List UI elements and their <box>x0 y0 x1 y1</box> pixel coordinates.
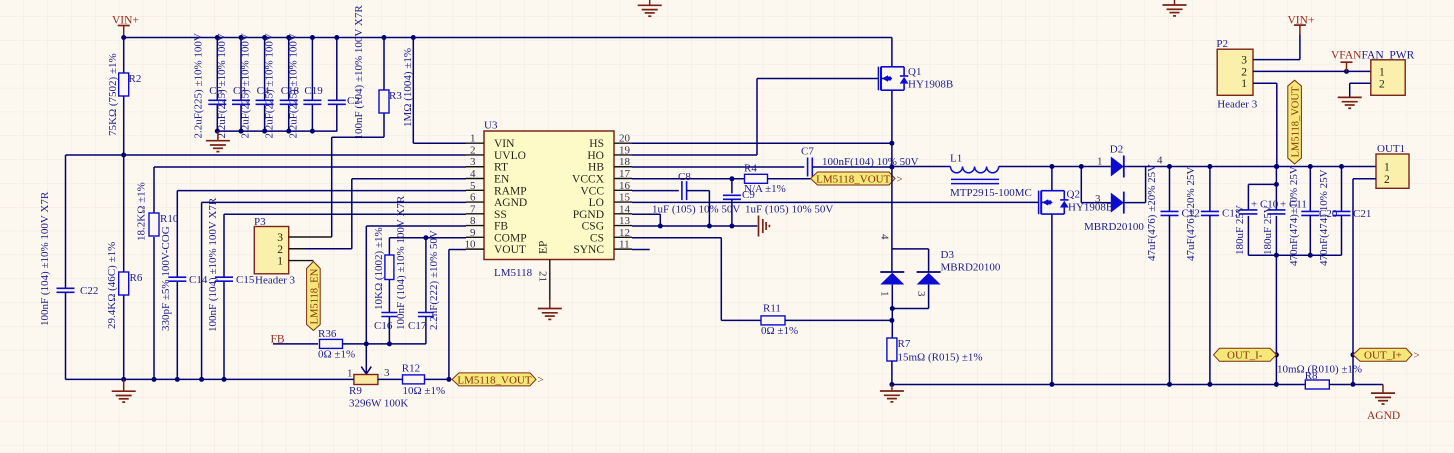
svg-text:2.2uF(225) ±10% 100V: 2.2uF(225) ±10% 100V <box>216 33 228 138</box>
potentiometer R9 wiper arrow <box>361 344 371 374</box>
potentiometer R9 <box>347 367 408 410</box>
svg-text:R10: R10 <box>160 213 179 225</box>
svg-text:5: 5 <box>470 180 476 192</box>
wire capacitor-bank ground rail <box>217 130 337 132</box>
pin 18 HB <box>588 156 632 174</box>
svg-text:3: 3 <box>1095 193 1101 205</box>
wire VIN to U3 pin1 <box>413 38 466 144</box>
svg-text:R9: R9 <box>349 385 362 397</box>
svg-text:R36: R36 <box>318 328 337 340</box>
net flag OUT_I- <box>1214 348 1277 361</box>
wire D3 to R7 <box>889 309 894 339</box>
svg-text:1uF (105) 10% 50V: 1uF (105) 10% 50V <box>745 204 833 216</box>
capacitor C13 <box>1185 167 1241 385</box>
svg-text:470nF(474)±10% 25V: 470nF(474)±10% 25V <box>1288 166 1300 266</box>
svg-text:SYNC: SYNC <box>573 244 604 256</box>
ground (power) <box>880 382 904 402</box>
svg-text:R6: R6 <box>130 272 143 284</box>
svg-text:COMP: COMP <box>494 232 527 244</box>
svg-text:470nF(474) 10% 25V: 470nF(474) 10% 25V <box>1318 169 1330 266</box>
header P3 <box>254 216 296 287</box>
inductor L1 <box>950 153 1032 200</box>
svg-text:PGND: PGND <box>573 209 604 221</box>
capacitor C18 <box>264 33 300 138</box>
connector FAN_PWR <box>1371 60 1405 96</box>
svg-text:2: 2 <box>277 244 283 256</box>
svg-text:LM5118_VOUT: LM5118_VOUT <box>457 374 531 386</box>
connector OUT1 <box>1376 143 1409 188</box>
pin 17 VCCX <box>572 168 632 186</box>
svg-text:100nF (104) ±10% 100V X7R: 100nF (104) ±10% 100V X7R <box>353 5 365 140</box>
wire VCC net / capacitor C8 <box>632 171 740 226</box>
svg-text:3: 3 <box>1241 55 1247 67</box>
resistor R36 <box>318 328 426 361</box>
wire OUT1 pin2 down <box>1353 179 1376 384</box>
power port VFAN <box>1331 50 1362 72</box>
wire power ground rail <box>892 382 1305 387</box>
svg-text:3: 3 <box>277 232 283 244</box>
svg-text:14: 14 <box>619 203 631 215</box>
wire P2 pin1 down <box>1253 83 1279 169</box>
pin 1 VIN <box>466 133 515 151</box>
svg-text:LO: LO <box>589 197 604 209</box>
svg-text:MBRD20100: MBRD20100 <box>1084 221 1144 233</box>
svg-text:CSG: CSG <box>582 221 604 233</box>
svg-text:1: 1 <box>1241 78 1247 90</box>
svg-text:R4: R4 <box>744 163 757 175</box>
svg-text:13: 13 <box>619 215 631 227</box>
net label FB <box>271 334 319 346</box>
svg-text:AGND: AGND <box>494 197 527 209</box>
svg-text:OUT_I+: OUT_I+ <box>1364 350 1402 362</box>
svg-text:HY1908B: HY1908B <box>908 79 953 91</box>
pin 9 COMP <box>466 227 527 245</box>
svg-text:0Ω ±1%: 0Ω ±1% <box>318 349 355 361</box>
svg-text:R11: R11 <box>763 303 781 315</box>
resistor R5 10K <box>373 227 394 312</box>
svg-text:75KΩ (7502) ±1%: 75KΩ (7502) ±1% <box>107 53 119 136</box>
capacitor C9 <box>723 179 833 226</box>
svg-text:C15: C15 <box>236 274 255 286</box>
svg-text:VCCX: VCCX <box>572 174 605 186</box>
net flag LM5118_VOUT bottom <box>452 373 536 386</box>
svg-text:RAMP: RAMP <box>494 185 527 197</box>
svg-text:3: 3 <box>470 156 476 168</box>
svg-text:AGND: AGND <box>1367 410 1400 422</box>
wire HS net <box>632 141 894 146</box>
svg-text:180uF 25V: 180uF 25V <box>1234 205 1246 255</box>
wire EN net to P3 pin2 <box>289 179 466 249</box>
svg-text:2: 2 <box>1241 66 1247 78</box>
svg-text:8: 8 <box>470 215 476 227</box>
capacitor C12 <box>1146 164 1200 384</box>
wire R3 to P3 pin3 <box>332 137 384 237</box>
svg-text:3: 3 <box>384 367 390 379</box>
svg-text:P3: P3 <box>254 216 266 228</box>
pin 21 EP stub <box>537 260 550 309</box>
wire VIN+ rail <box>124 37 892 39</box>
svg-text:10KΩ (1002) ±1%: 10KΩ (1002) ±1% <box>373 227 385 310</box>
net flag LM5118_VOUT vertical <box>1288 80 1302 164</box>
pin 20 HS <box>589 133 632 151</box>
svg-text:10: 10 <box>465 239 477 251</box>
svg-text:1: 1 <box>1097 156 1103 168</box>
pin 6 AGND <box>466 192 527 210</box>
svg-text:2.2uF(225) ±10% 100V: 2.2uF(225) ±10% 100V <box>240 33 252 138</box>
wire LO net to Q2 gate <box>632 201 1039 203</box>
resistor R12 <box>378 363 452 398</box>
capacitor C3 <box>216 33 250 138</box>
wire switch node to L1 <box>892 166 951 168</box>
svg-text:10mΩ (R010) ±1%: 10mΩ (R010) ±1% <box>1277 363 1362 375</box>
wire COMP net <box>389 235 466 255</box>
wire output cap bottoms <box>1248 254 1341 256</box>
svg-text:11: 11 <box>619 239 630 251</box>
svg-text:>: > <box>538 374 544 386</box>
svg-text:FB: FB <box>494 221 508 233</box>
wire P3 pin2 stub <box>289 248 306 250</box>
wire AGND net <box>202 202 466 379</box>
svg-text:VOUT: VOUT <box>494 244 526 256</box>
svg-text:EN: EN <box>494 174 510 186</box>
ground (U3 EP) <box>538 308 562 310</box>
pin 8 FB <box>466 215 508 233</box>
resistor R2 <box>107 38 141 156</box>
capacitor C21 <box>1318 167 1371 267</box>
wire L1 to D2 <box>999 164 1111 169</box>
svg-text:2.2uF(225) ±10% 100V: 2.2uF(225) ±10% 100V <box>287 33 299 138</box>
header P2 <box>1216 38 1257 111</box>
svg-text:47uF(476)±20% 25V: 47uF(476)±20% 25V <box>1185 167 1197 261</box>
svg-text:330pF ±5% 100V-COG: 330pF ±5% 100V-COG <box>160 226 172 331</box>
svg-text:LM5118_VOUT: LM5118_VOUT <box>816 173 890 185</box>
svg-text:21: 21 <box>537 271 549 282</box>
capacitor C20 <box>1288 166 1338 266</box>
wire SS net / capacitor C15 <box>207 197 466 379</box>
svg-text:7: 7 <box>470 203 476 215</box>
wire FB net to U3 pin8 <box>366 226 466 344</box>
pin 13 CSG <box>582 215 632 233</box>
svg-text:>: > <box>1414 350 1420 362</box>
capacitor C22 <box>39 191 98 379</box>
svg-text:UVLO: UVLO <box>494 150 526 162</box>
svg-text:C8: C8 <box>678 171 691 183</box>
pin 4 EN <box>466 168 510 186</box>
svg-text:Header 3: Header 3 <box>1217 99 1258 111</box>
capacitor C10 <box>1234 184 1279 255</box>
pin 12 CS <box>590 227 632 245</box>
power port VIN+ <box>112 15 139 38</box>
capacitor C2 <box>328 5 365 140</box>
svg-text:10Ω ±1%: 10Ω ±1% <box>403 385 446 397</box>
wire VCCX net / resistor R4 <box>632 163 811 196</box>
net flag LM5118_VOUT mid <box>811 172 896 185</box>
svg-text:CS: CS <box>590 232 604 244</box>
capacitor C19 <box>287 33 323 138</box>
power port VIN+ right <box>1288 15 1315 60</box>
transistor Q2 <box>1039 167 1114 385</box>
wire P2 pin2 to FAN pin1 <box>1253 69 1371 74</box>
pin 19 HO <box>587 144 632 162</box>
svg-text:15: 15 <box>619 192 631 204</box>
svg-text:C9: C9 <box>742 189 755 201</box>
resistor R7 <box>887 338 983 385</box>
svg-text:HB: HB <box>588 162 604 174</box>
wire CSG net <box>632 224 757 229</box>
svg-text:D2: D2 <box>1110 144 1123 156</box>
pin 10 VOUT <box>465 239 526 257</box>
svg-text:VFAN: VFAN <box>1331 50 1362 62</box>
svg-text:2: 2 <box>1384 174 1390 186</box>
svg-text:R12: R12 <box>402 363 420 375</box>
svg-text:3296W 100K: 3296W 100K <box>349 398 408 410</box>
svg-text:2.2uF(225) ±10% 100V: 2.2uF(225) ±10% 100V <box>192 33 204 138</box>
svg-text:RT: RT <box>494 162 508 174</box>
wire PGND net <box>632 214 660 226</box>
svg-text:C7: C7 <box>801 146 814 158</box>
svg-text:L1: L1 <box>950 153 962 165</box>
svg-text:17: 17 <box>619 168 631 180</box>
svg-text:2: 2 <box>470 144 476 156</box>
resistor R6 <box>106 155 143 379</box>
svg-text:100nF (104) ±10% 100V X7R: 100nF (104) ±10% 100V X7R <box>207 197 219 332</box>
svg-text:18: 18 <box>619 156 631 168</box>
svg-text:LM5118: LM5118 <box>494 267 533 279</box>
svg-text:R8: R8 <box>1305 370 1318 382</box>
pin 11 SYNC <box>573 239 632 257</box>
capacitor C4 <box>240 33 274 138</box>
wire switch node vertical <box>891 143 893 272</box>
svg-text:C22: C22 <box>80 285 98 297</box>
svg-text:OUT_I-: OUT_I- <box>1227 350 1263 362</box>
svg-text:C16: C16 <box>374 320 393 332</box>
capacitor C11 <box>1262 167 1307 258</box>
diode D2 <box>1081 144 1163 234</box>
svg-text:C21: C21 <box>1353 208 1371 220</box>
svg-text:2.2uF(225) ±10% 100V: 2.2uF(225) ±10% 100V <box>264 33 276 138</box>
power port AGND <box>1367 385 1400 423</box>
svg-text:9: 9 <box>470 227 476 239</box>
ground (CSG) <box>758 216 760 237</box>
svg-text:>: > <box>897 173 903 185</box>
ground (capacitor bank) <box>206 131 230 152</box>
wire output rail <box>1124 164 1376 169</box>
svg-text:HS: HS <box>589 138 604 150</box>
svg-text:1MΩ (1004) ±1%: 1MΩ (1004) ±1% <box>402 48 414 127</box>
junction dots ground rail <box>215 129 315 134</box>
wire P2 pin3 to VIN+ <box>1253 59 1300 61</box>
svg-text:2.2nF(222) ±10% 50V: 2.2nF(222) ±10% 50V <box>428 230 440 330</box>
wire HB net <box>632 166 804 168</box>
svg-text:180uF 25V: 180uF 25V <box>1262 205 1274 255</box>
ground (top right) <box>1163 0 1187 16</box>
pin 2 UVLO <box>466 144 526 162</box>
capacitor C16 <box>374 195 407 344</box>
svg-text:C17: C17 <box>408 320 427 332</box>
wire analog ground rail <box>66 377 354 382</box>
pin 16 VCC <box>580 180 632 198</box>
wire C10-C11 branch down to OUT_I- <box>1274 255 1356 384</box>
svg-text:SS: SS <box>494 209 507 221</box>
svg-text:HO: HO <box>587 150 604 162</box>
wire RT net / resistor R10 <box>136 167 467 379</box>
svg-text:19: 19 <box>619 144 631 156</box>
svg-text:0Ω ±1%: 0Ω ±1% <box>761 325 798 337</box>
svg-text:1: 1 <box>470 133 476 145</box>
svg-text:C14: C14 <box>189 274 208 286</box>
svg-text:OUT1: OUT1 <box>1377 143 1405 155</box>
transistor Q1 <box>878 38 953 144</box>
svg-text:18.2KΩ ±1%: 18.2KΩ ±1% <box>136 182 148 241</box>
svg-text:LM5118_EN: LM5118_EN <box>309 268 320 324</box>
junction dots on VIN+ rail <box>121 35 416 40</box>
pin 7 SS <box>466 203 507 221</box>
capacitor C5 <box>192 33 226 138</box>
svg-text:R7: R7 <box>898 338 911 350</box>
svg-text:20: 20 <box>619 133 631 145</box>
wire P3 pin3 stub <box>289 236 332 238</box>
svg-text:1: 1 <box>1379 66 1385 78</box>
op-amp U3 LM5118 body <box>484 120 614 280</box>
ground (analog left) <box>112 379 136 402</box>
svg-text:15mΩ (R015) ±1%: 15mΩ (R015) ±1% <box>898 352 983 364</box>
svg-text:47uF(476) ±20% 25V: 47uF(476) ±20% 25V <box>1146 164 1158 261</box>
wire HO net to Q1 gate <box>632 79 878 156</box>
svg-text:C19: C19 <box>304 85 323 97</box>
net flag OUT_I+ <box>1353 348 1412 361</box>
svg-text:4: 4 <box>879 234 891 240</box>
svg-text:16: 16 <box>619 180 631 192</box>
wire VOUT net to flag <box>449 250 466 380</box>
svg-text:100nF (104) ±10% 100V X7R: 100nF (104) ±10% 100V X7R <box>39 191 51 326</box>
svg-text:EP: EP <box>538 241 550 254</box>
pin 3 RT <box>466 156 508 174</box>
resistor R3 <box>379 38 414 138</box>
wire P3 pin1 stub <box>289 260 314 262</box>
resistor R8 <box>1277 363 1383 389</box>
svg-text:4: 4 <box>470 168 476 180</box>
svg-text:U3: U3 <box>484 120 498 132</box>
svg-text:Q1: Q1 <box>908 66 921 78</box>
svg-text:Q2: Q2 <box>1067 189 1080 201</box>
svg-text:MTP2915-100MC: MTP2915-100MC <box>950 187 1032 199</box>
pin 14 PGND <box>573 203 632 221</box>
svg-text:2: 2 <box>1379 79 1385 91</box>
svg-text:MBRD20100: MBRD20100 <box>941 262 1001 274</box>
svg-text:1: 1 <box>277 256 283 268</box>
capacitor C17 <box>408 230 440 344</box>
wire RAMP net / capacitor C14 <box>160 191 466 380</box>
svg-text:VIN: VIN <box>494 138 515 150</box>
svg-text:1uF (105) 10% 50V: 1uF (105) 10% 50V <box>652 204 740 216</box>
wire CS net to R11 <box>632 238 761 321</box>
wire UVLO net <box>66 153 467 289</box>
net flag LM5118_EN <box>307 262 321 331</box>
pin 5 RAMP <box>466 180 527 198</box>
svg-text:P2: P2 <box>1216 38 1228 50</box>
svg-text:3: 3 <box>915 291 927 297</box>
svg-text:Header 3: Header 3 <box>255 275 296 287</box>
pin 15 LO <box>589 192 632 210</box>
svg-text:100nF (104) ±10% 100V X7R: 100nF (104) ±10% 100V X7R <box>395 195 407 330</box>
svg-text:1: 1 <box>1384 162 1390 174</box>
svg-text:R2: R2 <box>129 73 142 85</box>
ground (FAN) <box>1338 96 1362 98</box>
svg-text:R3: R3 <box>389 90 402 102</box>
wire SYNC stub <box>632 249 650 251</box>
svg-text:12: 12 <box>619 227 630 239</box>
ground (top middle) <box>638 0 662 16</box>
resistor R11 <box>761 303 892 338</box>
svg-text:29.4KΩ (46C) ±1%: 29.4KΩ (46C) ±1% <box>106 242 118 329</box>
svg-text:6: 6 <box>470 192 476 204</box>
svg-text:LM5118_VOUT: LM5118_VOUT <box>1291 86 1302 157</box>
svg-text:1: 1 <box>879 291 891 297</box>
svg-text:VCC: VCC <box>580 185 604 197</box>
svg-text:D3: D3 <box>941 249 955 261</box>
wire FAN pin2 to ground <box>1350 83 1371 97</box>
capacitor C7 <box>801 146 919 177</box>
diode D3 <box>879 234 1001 311</box>
svg-text:1: 1 <box>347 368 353 380</box>
